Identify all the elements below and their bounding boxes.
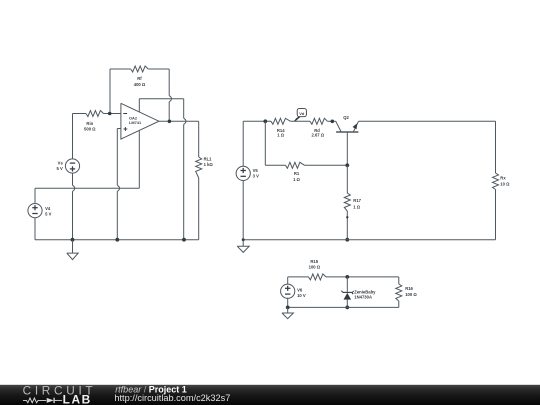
- svg-text:ZenieBaby: ZenieBaby: [354, 289, 376, 294]
- svg-text:http://circuitlab.com/c2k32s7: http://circuitlab.com/c2k32s7: [114, 393, 230, 403]
- svg-text:LM741: LM741: [129, 120, 142, 125]
- svg-text:Vs: Vs: [58, 161, 64, 166]
- svg-text:5 V: 5 V: [57, 166, 63, 171]
- svg-text:Vd: Vd: [299, 111, 305, 116]
- svg-text:R16: R16: [405, 286, 413, 291]
- svg-text:V4: V4: [45, 206, 51, 211]
- svg-text:5 V: 5 V: [45, 211, 51, 216]
- svg-text:100 Ω: 100 Ω: [309, 265, 321, 270]
- svg-text:1 Ω: 1 Ω: [353, 204, 360, 209]
- svg-text:500 Ω: 500 Ω: [84, 126, 96, 131]
- svg-text:R1: R1: [294, 171, 300, 176]
- svg-text:R17: R17: [353, 198, 361, 203]
- svg-text:LAB: LAB: [63, 393, 92, 405]
- svg-text:Rf: Rf: [137, 76, 142, 81]
- svg-text:3 V: 3 V: [253, 174, 259, 179]
- svg-text:2.67 Ω: 2.67 Ω: [311, 133, 324, 138]
- svg-text:10 Ω: 10 Ω: [500, 182, 510, 187]
- svg-text:1 kΩ: 1 kΩ: [204, 162, 214, 167]
- svg-text:Rx: Rx: [500, 175, 506, 180]
- svg-text:R15: R15: [310, 259, 318, 264]
- svg-text:V5: V5: [253, 168, 259, 173]
- svg-text:V6: V6: [297, 287, 303, 292]
- svg-text:10 V: 10 V: [297, 293, 306, 298]
- svg-text:Q2: Q2: [343, 115, 349, 120]
- svg-text:100 Ω: 100 Ω: [405, 292, 417, 297]
- svg-text:1N4730A: 1N4730A: [354, 295, 372, 300]
- svg-text:RL1: RL1: [204, 157, 213, 162]
- svg-text:1 Ω: 1 Ω: [293, 177, 300, 182]
- svg-text:400 Ω: 400 Ω: [134, 82, 146, 87]
- svg-text:Rin: Rin: [86, 121, 93, 126]
- svg-text:1 Ω: 1 Ω: [277, 133, 284, 138]
